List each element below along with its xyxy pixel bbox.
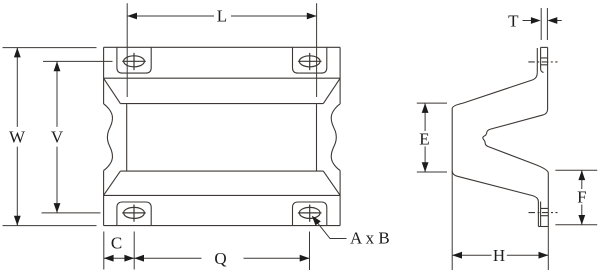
side view top flange outer line xyxy=(541,47,544,72)
slot outline top-right xyxy=(293,47,327,73)
svg-text:H: H xyxy=(493,246,505,265)
side view bottom flange boss line xyxy=(540,202,542,227)
side view outer left edge xyxy=(451,109,453,172)
svg-text:W: W xyxy=(9,128,26,147)
leader A x B xyxy=(312,216,390,248)
web bottom bend line xyxy=(120,170,323,172)
side view bottom centerline xyxy=(529,212,558,214)
side view top flange boss line xyxy=(536,48,538,73)
bend diagonal top-right xyxy=(323,78,340,103)
dimension E xyxy=(417,103,447,172)
side view top slot ticks xyxy=(541,58,548,65)
slot hole A x B top-right xyxy=(298,53,322,70)
svg-text:C: C xyxy=(111,234,122,253)
side view inner face lower xyxy=(547,173,549,227)
web left tangent line xyxy=(126,104,128,171)
side view outer upper slope xyxy=(452,73,537,109)
front view bottom edge xyxy=(104,225,341,227)
front view left edge lower xyxy=(103,170,105,225)
slot outline top-left xyxy=(117,47,151,73)
top flange bottom line xyxy=(104,77,341,79)
bottom flange top line xyxy=(104,194,341,196)
side view outer lower slope xyxy=(452,171,538,227)
svg-text:Q: Q xyxy=(214,249,226,268)
dimension C xyxy=(104,232,134,270)
slot outline bottom-right xyxy=(293,202,327,226)
side view bottom face xyxy=(538,226,548,228)
side view top flange face xyxy=(541,46,548,48)
front view right edge lower xyxy=(339,170,341,225)
slot hole A x B top-left xyxy=(122,53,146,70)
web top bend line xyxy=(120,103,323,105)
side view top centerline xyxy=(528,61,557,63)
bend diagonal bottom-left xyxy=(104,171,121,195)
side view xyxy=(452,47,557,226)
dimension V xyxy=(42,61,113,213)
svg-text:L: L xyxy=(217,7,227,26)
front view right edge upper xyxy=(339,47,341,104)
svg-text:V: V xyxy=(51,128,64,147)
side view bottom slot ticks xyxy=(541,208,549,215)
front view right wavy edge xyxy=(331,104,340,170)
svg-text:E: E xyxy=(419,130,429,149)
bend diagonal bottom-right xyxy=(323,171,340,195)
dimension H xyxy=(452,171,548,270)
svg-text:T: T xyxy=(508,12,519,31)
front view left edge upper xyxy=(103,47,105,104)
slot hole A x B bottom-left xyxy=(122,205,146,222)
dimension T xyxy=(508,8,562,40)
dimension W xyxy=(3,48,97,226)
web right tangent line xyxy=(316,104,318,171)
svg-text:F: F xyxy=(577,188,586,207)
front view top edge xyxy=(104,46,341,48)
side view inner face upper xyxy=(483,47,549,173)
dimension Q xyxy=(134,232,309,271)
bend diagonal top-left xyxy=(104,78,121,103)
svg-text:A x B: A x B xyxy=(350,229,390,248)
dimension L xyxy=(127,3,316,97)
slot outline bottom-left xyxy=(117,202,151,226)
slot hole A x B bottom-right xyxy=(298,205,322,222)
front view left wavy edge xyxy=(104,104,113,170)
dimension F xyxy=(555,170,597,225)
